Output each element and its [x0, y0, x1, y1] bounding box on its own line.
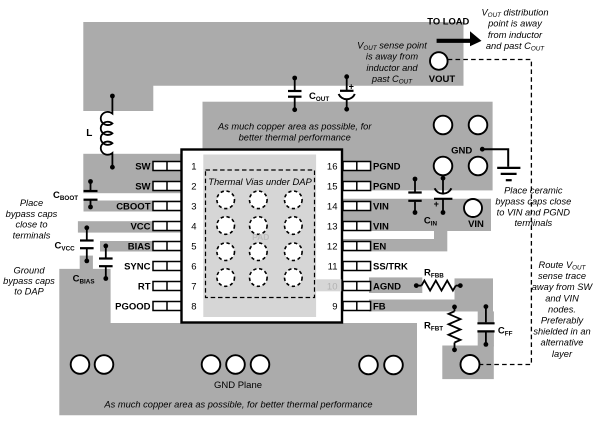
svg-text:terminals: terminals	[13, 230, 51, 240]
node VIN/EN copper (VIN tied to EN)	[343, 199, 491, 252]
DAP outline dashed	[206, 170, 315, 298]
svg-text:CBOOT: CBOOT	[116, 201, 151, 212]
pin 1 pad (SW)	[153, 162, 181, 171]
wire dashed VOUT sense route	[448, 60, 532, 365]
pin 11 number	[328, 261, 338, 272]
svg-text:PAD: PAD	[252, 232, 269, 242]
label L	[86, 128, 92, 139]
label CBOOT	[53, 190, 78, 202]
svg-text:9: 9	[332, 301, 337, 312]
pin 5 pad (BIAS)	[153, 242, 181, 251]
pin label FB	[373, 301, 386, 312]
svg-text:SS/TRK: SS/TRK	[373, 261, 408, 272]
pin label SW	[135, 161, 150, 172]
svg-text:from inductor: from inductor	[488, 30, 543, 40]
svg-text:and VIN: and VIN	[545, 293, 579, 303]
svg-text:bypass caps: bypass caps	[6, 209, 58, 219]
svg-text:away from SW: away from SW	[532, 282, 594, 292]
svg-text:close to: close to	[15, 220, 47, 230]
note place bypass caps close	[6, 198, 58, 240]
node VOUT sense copper (bottom right block)	[442, 346, 494, 380]
svg-text:As much copper area as possibl: As much copper area as possible, for	[217, 121, 372, 131]
svg-text:2: 2	[191, 181, 196, 192]
svg-text:16: 16	[327, 161, 338, 172]
svg-text:VIN: VIN	[468, 219, 484, 230]
pin 14 pad (VIN)	[343, 202, 371, 211]
svg-text:SW: SW	[135, 161, 150, 172]
svg-text:to VIN and PGND: to VIN and PGND	[497, 207, 571, 217]
svg-text:VIN: VIN	[373, 201, 389, 212]
svg-text:L: L	[86, 128, 92, 139]
via GND plane top row 1	[434, 116, 488, 135]
pin label VIN	[373, 221, 389, 232]
capacitor COUT bulk (polarized)	[339, 74, 355, 111]
svg-text:EN: EN	[373, 241, 386, 252]
node GND copper plane (top right block)	[203, 102, 493, 191]
pin 7 pad (RT)	[153, 282, 181, 291]
svg-text:inductor and: inductor and	[366, 63, 418, 73]
pin label VCC	[130, 221, 150, 232]
pin 7 number	[191, 281, 196, 292]
pin 8 number	[191, 301, 196, 312]
DAP copper fill under IC	[203, 155, 316, 318]
pin label AGND	[373, 281, 401, 292]
pin 12 number	[327, 241, 338, 252]
label CVCC	[55, 241, 76, 253]
pin label PGND	[373, 181, 401, 192]
via GND plane bottom left pair	[71, 355, 114, 374]
resistor RFBB	[414, 281, 463, 291]
svg-text:VCC: VCC	[130, 221, 150, 232]
note VOUT sense point	[357, 41, 427, 86]
node FB copper (feedback trace)	[369, 278, 494, 346]
svg-text:Place ceramic: Place ceramic	[504, 186, 563, 196]
pin 16 pad (PGND)	[343, 162, 371, 171]
pin 2 pad (SW)	[153, 182, 181, 191]
note copper area bottom	[103, 400, 372, 410]
svg-text:GND Plane: GND Plane	[214, 380, 262, 391]
note ground bypass caps to DAP	[3, 265, 55, 296]
label GND Plane	[214, 380, 262, 391]
svg-text:GND: GND	[451, 146, 472, 157]
label RFBB	[424, 268, 444, 280]
svg-text:5: 5	[191, 241, 196, 252]
capacitor CVCC	[80, 225, 94, 263]
pin 8 pad (PGOOD)	[153, 302, 181, 311]
note VOUT distribution point	[481, 7, 548, 52]
pin 3 number	[191, 201, 196, 212]
svg-text:PGOOD: PGOOD	[115, 301, 151, 312]
capacitor CFF	[477, 304, 496, 347]
svg-text:VIN: VIN	[373, 221, 389, 232]
pin label RT	[138, 281, 151, 292]
svg-text:nodes.: nodes.	[548, 304, 576, 314]
node GND tab under CVCC	[80, 256, 93, 270]
pin 5 number	[191, 241, 196, 252]
pin 10 number	[327, 281, 338, 292]
svg-text:is away from: is away from	[366, 52, 418, 62]
svg-text:point is away: point is away	[487, 19, 543, 29]
label COUT	[309, 91, 329, 103]
pin 9 number	[332, 301, 337, 312]
svg-text:PGND: PGND	[373, 161, 401, 172]
svg-text:12: 12	[327, 241, 338, 252]
capacitor CIN ceramic	[408, 177, 421, 215]
svg-text:15: 15	[327, 181, 338, 192]
svg-text:13: 13	[327, 221, 338, 232]
svg-text:+: +	[434, 199, 439, 209]
pin 1 number	[191, 161, 196, 172]
arrow TO LOAD	[437, 31, 482, 46]
node GND plane (bottom)	[59, 269, 417, 415]
pin label CBOOT	[116, 201, 151, 212]
resistor RFBT	[449, 305, 461, 353]
pin 9 pad (FB)	[343, 302, 371, 311]
label GND	[451, 146, 472, 157]
svg-text:PGND: PGND	[373, 181, 401, 192]
pin 4 pad (VCC)	[153, 222, 181, 231]
pin label BIAS	[128, 241, 151, 252]
svg-text:8: 8	[191, 301, 196, 312]
svg-text:shielded in an: shielded in an	[533, 327, 590, 337]
svg-text:AGND: AGND	[373, 281, 401, 292]
svg-text:terminals: terminals	[514, 218, 552, 228]
svg-text:BIAS: BIAS	[128, 241, 151, 252]
svg-text:Ground: Ground	[13, 265, 45, 275]
pin 2 number	[191, 181, 196, 192]
ground symbol	[480, 147, 521, 180]
svg-text:VOUT: VOUT	[429, 74, 456, 85]
label Thermal Vias under DAP	[208, 176, 312, 187]
pin label SW	[135, 181, 150, 192]
node SW copper trace	[83, 154, 182, 193]
pin 15 number	[327, 181, 338, 192]
svg-text:SYNC: SYNC	[124, 261, 151, 272]
node VCC copper trace	[78, 221, 182, 232]
svg-text:As much copper area as possibl: As much copper area as possible, for bet…	[103, 400, 372, 410]
pin 13 number	[327, 221, 338, 232]
pin 4 number	[191, 221, 196, 232]
pin 15 pad (PGND)	[343, 182, 371, 191]
pin 14 number	[327, 201, 338, 212]
svg-text:SW: SW	[135, 181, 150, 192]
svg-text:7: 7	[191, 281, 196, 292]
svg-text:RT: RT	[138, 281, 151, 292]
label PAD (faint)	[252, 232, 269, 242]
node BIAS copper trace	[100, 241, 182, 252]
svg-text:TO LOAD: TO LOAD	[427, 16, 469, 27]
svg-text:6: 6	[191, 261, 196, 272]
pin label EN	[373, 241, 386, 252]
pin label PGOOD	[115, 301, 151, 312]
pin 11 pad (SS/TRK)	[343, 262, 371, 271]
node AGND copper trace	[369, 277, 422, 293]
label CFF	[498, 326, 513, 338]
IC U1 body	[182, 150, 343, 323]
via GND plane top row 2	[434, 157, 488, 176]
svg-text:Thermal Vias under DAP: Thermal Vias under DAP	[208, 176, 312, 187]
pin 10 pad (AGND)	[343, 282, 371, 291]
svg-text:+: +	[349, 81, 354, 91]
label CBIAS	[73, 274, 95, 286]
pin label PGND	[373, 161, 401, 172]
svg-text:1: 1	[191, 161, 196, 172]
via GND plane bottom right pair	[359, 356, 403, 375]
svg-text:3: 3	[191, 201, 196, 212]
pin 6 pad (SYNC)	[153, 262, 181, 271]
label RFBT	[424, 321, 443, 333]
pin label SS/TRK	[373, 261, 408, 272]
svg-text:alternative: alternative	[541, 338, 584, 348]
svg-text:bypass caps: bypass caps	[3, 276, 55, 286]
svg-text:FB: FB	[373, 301, 386, 312]
pin 3 pad (CBOOT)	[153, 202, 181, 211]
svg-text:to DAP: to DAP	[14, 286, 44, 296]
svg-text:4: 4	[191, 221, 196, 232]
svg-text:14: 14	[327, 201, 338, 212]
svg-text:Place: Place	[20, 198, 43, 208]
pin 16 number	[327, 161, 338, 172]
note place ceramic bypass caps	[495, 186, 571, 229]
note copper area top	[217, 121, 372, 142]
label TO LOAD	[427, 16, 469, 27]
pin 10 highlight stripe	[316, 279, 341, 291]
via VIN	[464, 199, 482, 217]
via VOUT	[430, 52, 448, 70]
inductor L	[101, 94, 115, 170]
svg-text:Preferably: Preferably	[541, 316, 585, 326]
thermal vias under DAP (12 dashed circles)	[217, 191, 302, 286]
capacitor CIN bulk (polarized)	[434, 176, 453, 215]
label VOUT	[429, 74, 456, 85]
pin 13 pad (VIN)	[343, 222, 371, 231]
node CBOOT copper trace	[84, 201, 183, 212]
svg-text:bypass caps close: bypass caps close	[495, 196, 571, 206]
via VOUT sense (bottom right)	[461, 355, 480, 374]
label VIN	[468, 219, 484, 230]
pin 12 pad (EN)	[343, 242, 371, 251]
capacitor CBIAS	[99, 244, 113, 281]
capacitor COUT ceramic	[288, 76, 302, 113]
svg-text:sense trace: sense trace	[538, 271, 586, 281]
via GND plane bottom middle trio	[202, 355, 270, 374]
svg-text:layer: layer	[552, 349, 573, 359]
node VOUT copper plane (top, inductor to load)	[83, 22, 463, 111]
capacitor CBOOT	[84, 179, 98, 209]
pin label SYNC	[124, 261, 151, 272]
svg-text:better thermal performance: better thermal performance	[239, 133, 351, 143]
pin 6 number	[191, 261, 196, 272]
note route VOUT sense trace	[532, 260, 594, 359]
label CIN	[424, 216, 438, 228]
svg-text:11: 11	[328, 261, 338, 272]
svg-text:10: 10	[327, 281, 338, 292]
pin label VIN	[373, 201, 389, 212]
